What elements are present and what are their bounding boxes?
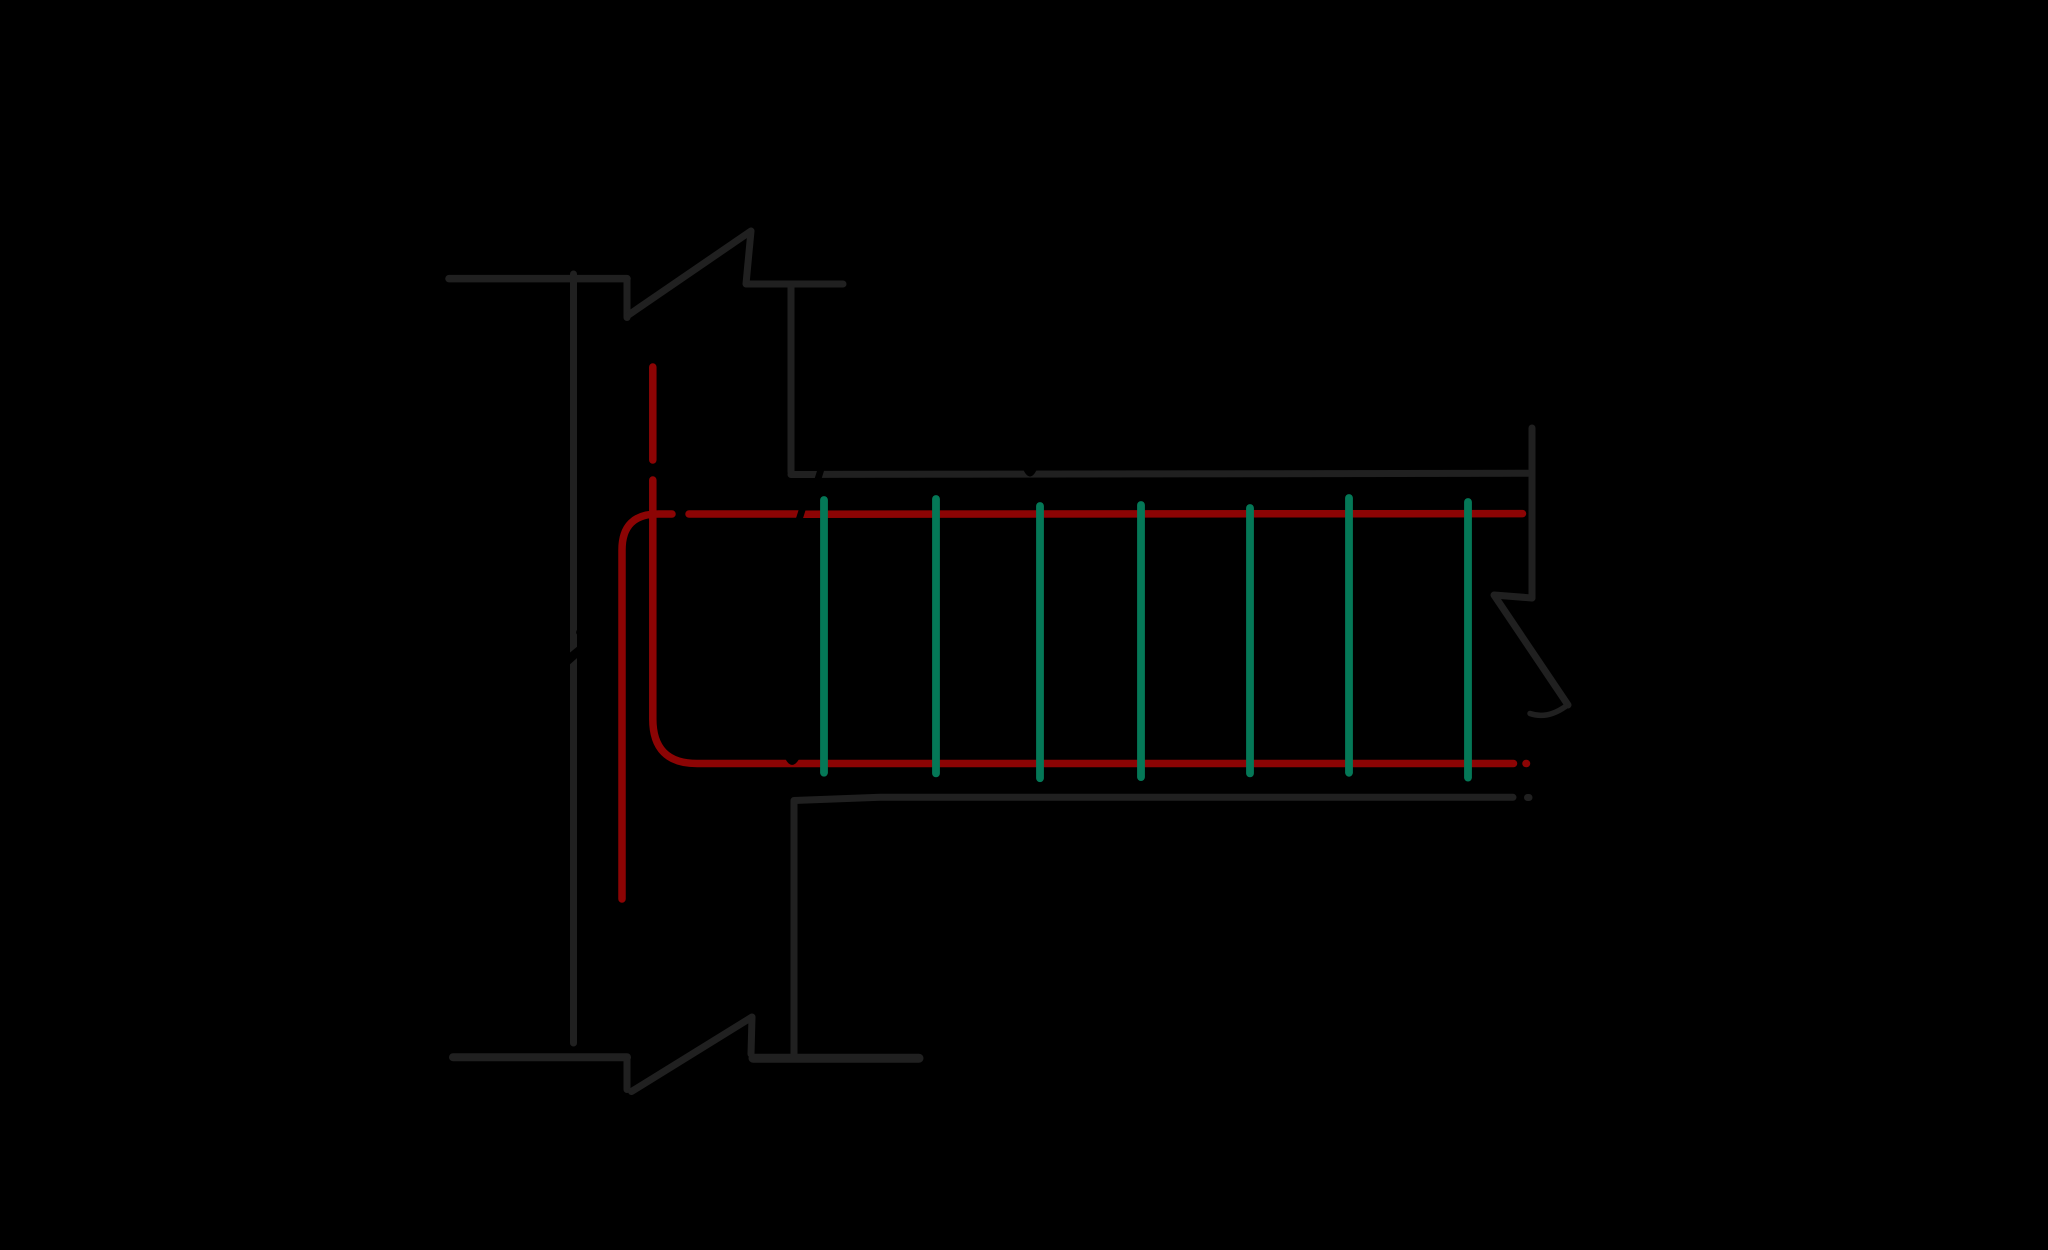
beam bottom edge <box>794 797 1513 800</box>
stirrup S4 <box>1137 505 1145 777</box>
stirrup S7 <box>1464 502 1472 778</box>
slab bottom-left horizontal edge <box>453 1053 627 1061</box>
beam bottom-left vertical edge <box>791 801 798 1056</box>
joint notch on bottom rebar <box>786 759 800 765</box>
stirrup S1 <box>820 500 828 773</box>
slanted break cut across top rebar <box>795 504 808 523</box>
right break line (zigzag) <box>1494 595 1568 715</box>
joint notch on beam top edge <box>1024 470 1037 476</box>
stirrup S3 <box>1036 506 1044 778</box>
pen-break slash on column line <box>567 629 582 667</box>
top rebar segment long <box>802 510 1523 518</box>
stirrup S6 <box>1345 498 1353 773</box>
beam top-left vertical edge <box>788 287 795 472</box>
beam top edge <box>791 473 1528 474</box>
stirrup S5 <box>1246 508 1254 773</box>
slab lower-right horizontal edge <box>753 1054 919 1063</box>
top rebar with hook (bent bar) <box>622 514 672 899</box>
slanted break cut across beam top edge <box>814 463 827 482</box>
beam bottom edge end dash <box>1528 794 1530 801</box>
column left edge (wall outline) <box>570 274 577 1043</box>
lower break line (zigzag) <box>627 1017 752 1092</box>
upper break line (zigzag) <box>627 231 843 318</box>
bottom rebar end dash <box>1522 760 1530 768</box>
slab top-left horizontal edge <box>449 275 627 283</box>
beam right end vertical edge <box>1529 428 1536 598</box>
bottom rebar with bend <box>653 480 1514 764</box>
anchor bar vertical dash (upper) <box>649 367 657 460</box>
stirrup S2 <box>932 499 940 773</box>
top rebar segment mid <box>689 510 800 518</box>
